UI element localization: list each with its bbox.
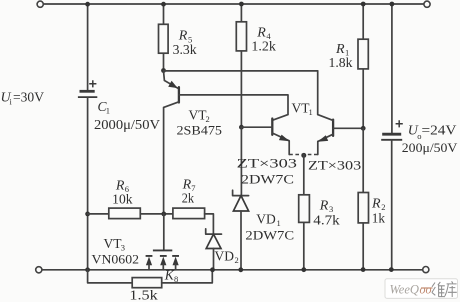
input terminal bottom-left: [36, 267, 42, 273]
bottom rail wire: [42, 269, 423, 271]
svg-text:4.7k: 4.7k: [313, 212, 340, 227]
node dot bottom C1/K8 left: [85, 267, 90, 272]
wire VT2 base to VT1 left collector: [179, 95, 288, 120]
transistor VT1 left bar: [271, 119, 273, 135]
label VT1: [292, 101, 313, 118]
label R2 1k: [371, 197, 385, 226]
svg-text:WeeQ: WeeQ: [390, 282, 420, 297]
label R4 1.2k: [251, 26, 276, 54]
label C1 2000u/50V: [94, 99, 160, 132]
svg-text:1.8k: 1.8k: [329, 55, 353, 70]
zener diode VD1: [233, 190, 249, 270]
wire R4 to VD1: [240, 127, 242, 195]
node dot top R5: [161, 2, 166, 7]
node dot bottom R3: [301, 267, 306, 272]
node dot top R1: [361, 2, 366, 7]
label R3 4.7k: [313, 199, 340, 228]
svg-text:2k: 2k: [182, 191, 195, 206]
wire VT2 collector to VT3 gate: [163, 214, 165, 250]
dashed emitter tie: [289, 154, 318, 156]
resistor R5: [159, 4, 169, 70]
output terminal top-right: [424, 1, 430, 7]
svg-text:3.3k: 3.3k: [173, 42, 197, 57]
potentiometer K8 (1.5k): [132, 278, 162, 288]
svg-text:VT: VT: [189, 108, 208, 123]
wire C1 rail top: [87, 4, 89, 90]
mosfet VT3 channel ticks: [146, 255, 179, 257]
svg-text:VD: VD: [256, 211, 276, 226]
output terminal bottom-right: [423, 267, 429, 273]
svg-text:8: 8: [174, 274, 178, 284]
node dot top R4: [239, 2, 244, 7]
wire VT1 left base: [241, 126, 272, 128]
wire R6 left lead: [88, 213, 109, 215]
VT1 left emitter arrowhead: [279, 135, 290, 142]
svg-text:VN0602: VN0602: [92, 251, 140, 266]
node dot R1 bottom / VT1 right base: [361, 126, 366, 131]
node dot top C1: [85, 2, 90, 7]
transistor VT2 emitter lead: [164, 71, 179, 89]
svg-text:VT: VT: [104, 236, 123, 251]
node dot K8 right / VD2 bottom: [210, 267, 215, 272]
node dot bottom C2: [389, 267, 394, 272]
label VD1: [256, 211, 280, 228]
svg-text:2DW7C: 2DW7C: [241, 171, 294, 186]
resistor R4: [236, 4, 246, 127]
resistor R7: [173, 208, 205, 219]
label R7 2k: [182, 178, 196, 206]
svg-text:1k: 1k: [372, 211, 385, 226]
VT1 right emitter arrowhead: [318, 135, 329, 141]
svg-text:2: 2: [235, 255, 239, 265]
svg-text:1: 1: [106, 105, 110, 115]
wire VT1 right base: [333, 127, 363, 129]
svg-text:200μ/50V: 200μ/50V: [402, 140, 458, 155]
node dot bottom R2: [361, 267, 366, 272]
resistor R6: [109, 208, 141, 219]
label VT3 VN0602: [92, 236, 140, 266]
resistor R1: [358, 4, 368, 128]
mosfet VT3 source arrows: [146, 257, 179, 270]
node dot R6/R7 junction: [161, 212, 166, 217]
svg-text:VD: VD: [215, 248, 235, 263]
svg-text:2SB475: 2SB475: [177, 123, 223, 138]
resistor R2: [358, 128, 368, 269]
wire VT2 collector down: [164, 102, 179, 214]
svg-text:ZT×303: ZT×303: [237, 156, 297, 171]
wire C2 rail bottom: [391, 140, 393, 270]
svg-text:1: 1: [309, 107, 313, 117]
transistor VT1 right bar: [332, 120, 334, 136]
wire R7 to VD2: [205, 214, 214, 234]
svg-text:1.5k: 1.5k: [129, 287, 158, 302]
wire K8 loop right: [162, 270, 213, 283]
svg-text:2DW7C: 2DW7C: [245, 227, 294, 242]
svg-text:R: R: [319, 199, 329, 214]
resistor R3: [299, 155, 310, 270]
node dot R6 wire left: [85, 212, 90, 217]
svg-text:10k: 10k: [112, 192, 133, 207]
capacitor C2: [381, 120, 403, 140]
label Uo=24V: [408, 123, 457, 142]
svg-text:R: R: [371, 197, 381, 212]
label R1 1.8k: [329, 42, 353, 70]
VT1 right emitter lead: [318, 134, 333, 154]
label R5 3.3k: [173, 29, 197, 57]
input terminal top-left: [37, 1, 43, 7]
top rail wire: [43, 3, 424, 5]
node dot bottom VD1: [238, 267, 243, 272]
mosfet VT3 gate bar: [153, 249, 172, 251]
wire emitter node to right collector: [164, 70, 318, 72]
wire C2 rail top: [391, 4, 393, 133]
transistor VT2 base bar: [178, 87, 180, 102]
wire K8 loop left: [88, 270, 133, 283]
node dot R4 bottom / VT1 left base: [239, 125, 244, 130]
transistor VT2 emitter arrowhead: [168, 81, 178, 88]
svg-text:=24V: =24V: [422, 123, 457, 138]
zener diode VD2: [206, 229, 222, 270]
svg-text:2000μ/50V: 2000μ/50V: [94, 117, 160, 132]
svg-text:=30V: =30V: [13, 90, 44, 105]
VT1 left emitter lead: [272, 133, 289, 155]
label R6 10k: [112, 178, 133, 206]
label VT2 2SB475: [177, 108, 223, 138]
wire VT1 right collector: [318, 71, 333, 121]
capacitor C1: [78, 80, 97, 97]
svg-text:VT: VT: [292, 101, 311, 116]
watermark hanzi 维库 (drawn strokes): [432, 281, 457, 297]
label VD2: [215, 248, 239, 265]
svg-text:1.2k: 1.2k: [251, 38, 276, 53]
node dot top C2: [390, 2, 395, 7]
label K8: [164, 267, 178, 284]
node dot R5 bottom / VT2 emitter node: [161, 68, 166, 73]
svg-text:ZT×303: ZT×303: [308, 158, 361, 173]
svg-text:oo: oo: [420, 282, 432, 297]
label Ui=30V: [1, 90, 45, 107]
wire C1 rail bottom: [87, 97, 89, 270]
node dot emitter tie: [301, 153, 306, 158]
watermark WeeQoo box: [385, 279, 458, 299]
wire R6 to R7: [140, 213, 173, 215]
